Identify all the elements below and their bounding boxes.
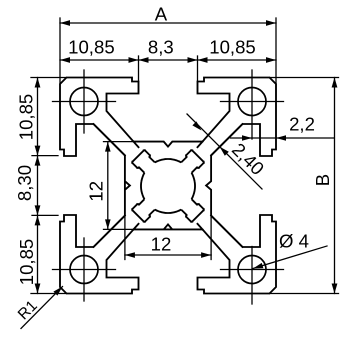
svg-text:8,30: 8,30 [14, 165, 35, 201]
svg-text:12: 12 [86, 181, 107, 202]
svg-text:10,85: 10,85 [16, 239, 37, 286]
svg-text:A: A [155, 3, 168, 24]
svg-text:10,85: 10,85 [209, 37, 256, 58]
svg-text:12: 12 [151, 234, 172, 255]
svg-text:8,3: 8,3 [148, 37, 174, 58]
svg-text:Ø 4: Ø 4 [279, 231, 309, 252]
svg-text:B: B [312, 174, 333, 186]
svg-text:10,85: 10,85 [16, 94, 37, 141]
svg-text:2,2: 2,2 [289, 114, 315, 135]
svg-text:10,85: 10,85 [68, 37, 115, 58]
